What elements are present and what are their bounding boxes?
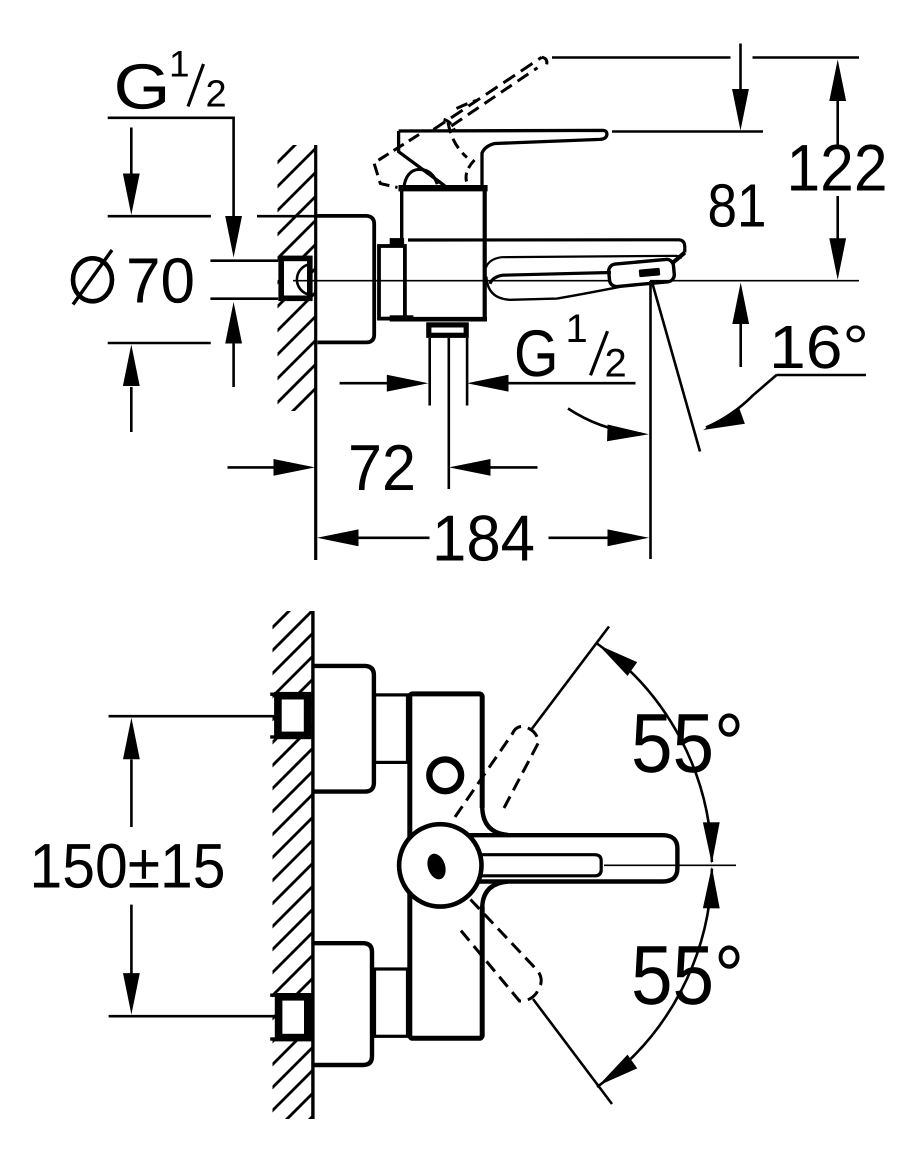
escutcheon rosette (side view) — [316, 216, 374, 343]
Oslash70 upper arrow tail — [130, 128, 133, 177]
G1/2 inlet lower extension — [210, 297, 278, 300]
spout inner top line — [486, 256, 681, 268]
svg-text:1: 1 — [566, 307, 588, 351]
wall inlet square fitting (side view) — [281, 258, 310, 298]
svg-text:70: 70 — [126, 245, 195, 317]
svg-text:55°: 55° — [631, 928, 744, 1022]
72 right tail — [491, 466, 538, 469]
G1/2 dim leader line — [108, 118, 234, 218]
keyhole mark in boss — [424, 851, 449, 881]
temperature limiter ring — [429, 759, 461, 791]
svg-text:55°: 55° — [631, 696, 744, 790]
svg-text:150±15: 150±15 — [30, 832, 226, 902]
upper inlet square stubs — [270, 693, 276, 696]
16deg arrow at sloped line — [700, 408, 745, 438]
svg-text:2: 2 — [206, 74, 227, 116]
svg-text:184: 184 — [432, 502, 535, 575]
81 top extension (lever top level) — [612, 130, 763, 133]
union nut (side view) — [379, 246, 405, 319]
Oslash70 arrow up — [123, 345, 140, 387]
raised lever back corner (dashed) — [466, 160, 474, 182]
raised lever underside (dashed) — [451, 68, 537, 126]
16deg text underline — [776, 374, 866, 377]
184 dim line left part — [358, 536, 430, 539]
G1/2 lower arrow tail — [232, 342, 235, 388]
fraction slash (top G1/2) — [188, 64, 204, 107]
G1/2 inlet upper extension — [210, 259, 278, 262]
G1/2 mid arrow right — [387, 375, 429, 392]
184 arrow right — [608, 529, 650, 546]
G1/2 mid right tail — [508, 382, 636, 385]
upper 55deg arrow at axis — [703, 822, 720, 864]
upper 55deg arrow at leader — [594, 638, 638, 676]
shower hose connector (side view) — [429, 325, 466, 335]
lever swung down 55deg (dashed) — [460, 900, 541, 1002]
pipe centre line / 72 extension — [447, 338, 450, 489]
lower inlet square stubs — [270, 994, 276, 997]
72 arrow left at pipe axis — [449, 459, 491, 476]
lower 55deg arrow at leader — [594, 1055, 638, 1093]
150 upper extension line — [109, 715, 274, 718]
svg-text:122: 122 — [787, 131, 888, 205]
81 arrow down — [732, 89, 749, 131]
lever swung up 55deg (dashed) — [455, 726, 539, 817]
raised lever pivot arc (dashed) — [444, 119, 455, 130]
upper S-union (front view) — [375, 695, 408, 763]
72 arrow right at wall face — [274, 459, 316, 476]
122 arrow down — [829, 238, 846, 280]
122 arrow up — [829, 60, 846, 102]
lower S-union (front view) — [375, 969, 408, 1036]
72 left tail — [228, 466, 275, 469]
hose nipple pipe lines — [428, 338, 431, 406]
svg-text:1: 1 — [169, 44, 190, 85]
G1/2 mid arrow left — [467, 375, 509, 392]
wall (bottom view, hatched) — [262, 551, 326, 1166]
lever arm (front view) — [460, 835, 677, 881]
svg-text:G: G — [514, 316, 559, 390]
lower escutcheon (front view) — [312, 943, 373, 1065]
spout inner underside edge — [490, 273, 611, 284]
svg-text:2: 2 — [605, 341, 627, 385]
Oslash70 lower arrow tail — [130, 387, 133, 432]
inlet centre line — [293, 280, 612, 282]
lever pivot dome — [404, 169, 438, 188]
lever axis centre line — [604, 864, 736, 866]
raised lever tip (dashed) — [542, 57, 547, 66]
vertical reference line from spout tip — [649, 281, 652, 559]
wall (top view, hatched) — [266, 86, 330, 462]
wall face line (bottom view) — [311, 611, 314, 1119]
lever handle (side view) — [399, 130, 607, 188]
raised lever neck (dashed) — [448, 123, 467, 158]
G1/2 mid left tail — [340, 382, 387, 385]
svg-text:16°: 16° — [769, 313, 869, 381]
Oslash70 lower extension line — [108, 342, 211, 345]
spout outlet extension line over outlet — [650, 280, 859, 282]
lower 55deg leader line — [533, 999, 612, 1104]
svg-text:G: G — [114, 51, 171, 123]
spout underside — [486, 277, 624, 300]
body-to-arm top fillet — [482, 806, 508, 835]
nut tabs — [390, 238, 404, 245]
150 arrow up — [123, 718, 140, 760]
svg-text:81: 81 — [708, 172, 767, 240]
faucet body (front view) — [410, 694, 482, 1038]
raised lever back tip (dashed) — [374, 135, 419, 188]
dimension Oslash 70 text — [73, 258, 112, 301]
lever grip slot — [470, 855, 601, 876]
16deg arrow at vertical line — [607, 424, 649, 442]
16deg sloped stream line — [652, 282, 700, 452]
G1/2 arrow down at x=233 — [225, 216, 242, 258]
lower 55deg arc — [597, 869, 712, 1087]
spout tip chamfer — [671, 253, 685, 265]
16deg left arc — [568, 409, 641, 434]
lever back edge — [399, 131, 445, 186]
upper wall inlet square (front view) — [278, 696, 308, 736]
svg-text:72: 72 — [348, 431, 416, 504]
lower wall inlet square (front view) — [279, 997, 308, 1038]
upper escutcheon (front view) — [312, 666, 374, 792]
ball joint arc inside fitting — [297, 265, 309, 295]
122 top extension (raised lever tip level) — [552, 56, 731, 59]
81 arrow up — [732, 283, 749, 325]
150 lower extension line — [109, 1015, 275, 1018]
raised lever inner edge (dashed) — [457, 101, 477, 109]
184 dim line right part — [549, 536, 609, 539]
erase body edge behind lever boss — [479, 808, 488, 907]
upper 55deg arc — [597, 644, 712, 863]
184 arrow left — [317, 529, 359, 546]
spout outlet mousseur housing — [608, 259, 675, 287]
faucet body (side view) — [400, 191, 403, 246]
G1/2 arrow up at x=233 — [225, 302, 242, 344]
81 upper outside arrow tail — [739, 44, 742, 91]
lever boss circle — [399, 824, 481, 906]
spout top edge — [408, 240, 685, 253]
Oslash70 upper extension line — [108, 215, 211, 218]
aerator insert (dark) — [639, 268, 661, 278]
Oslash70 arrow down — [123, 174, 140, 216]
lower 55deg arrow at axis — [703, 867, 720, 909]
fraction slash (middle G1/2) — [591, 331, 608, 375]
body-to-arm bottom fillet — [482, 882, 508, 909]
upper 55deg leader line — [531, 627, 609, 731]
raised lever top edge (dashed) — [434, 57, 542, 129]
150 arrow down — [123, 973, 140, 1015]
16deg right arc — [706, 375, 777, 428]
wall face line / 184 extension (top view) — [314, 145, 317, 560]
